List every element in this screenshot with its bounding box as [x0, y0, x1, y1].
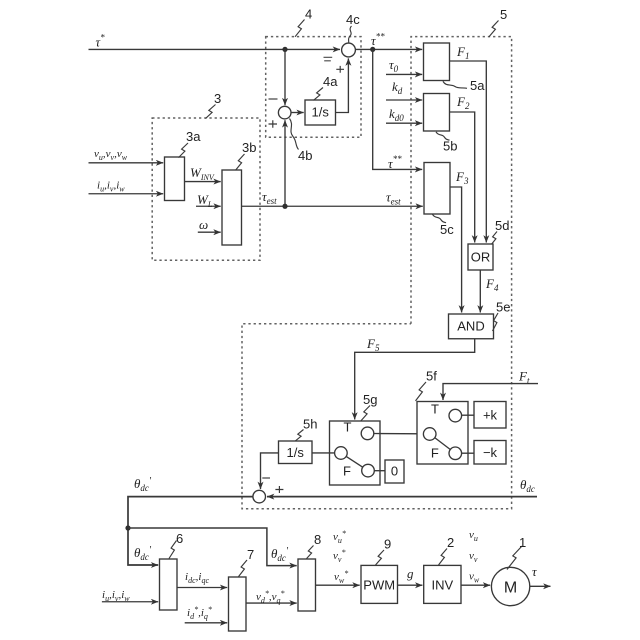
- svg-text:5b: 5b: [443, 139, 457, 154]
- svg-text:g: g: [407, 566, 414, 581]
- svg-text:OR: OR: [471, 250, 491, 265]
- svg-text:7: 7: [247, 547, 254, 562]
- leader 5d: [492, 232, 498, 245]
- wire F2 output to OR: [450, 112, 475, 243]
- leader 5f: [416, 382, 427, 401]
- svg-text:−k: −k: [483, 445, 498, 460]
- svg-text:T: T: [431, 402, 439, 417]
- block 3b: [222, 170, 242, 245]
- wire k_d0 into F2: [386, 122, 422, 124]
- squiggle leaders: [169, 20, 522, 577]
- svg-text:5e: 5e: [496, 300, 510, 315]
- wire tau* main line: [89, 48, 341, 50]
- svg-text:τest: τest: [262, 189, 277, 206]
- svg-text:idc,iqc: idc,iqc: [185, 571, 209, 585]
- leader 4: [295, 20, 305, 37]
- svg-text:vd*,vq*: vd*,vq*: [256, 589, 285, 605]
- contact T of 5g: [361, 427, 374, 440]
- wire tau* down to 4b: [284, 49, 286, 105]
- wire theta_dc' output left and down to block 6: [128, 497, 253, 565]
- leader 9: [376, 550, 385, 565]
- svg-text:τ**: τ**: [371, 32, 385, 49]
- gain box -k: [474, 441, 506, 465]
- integrator box 4a (1/s): [305, 100, 336, 125]
- minus sign at summing junction: [262, 477, 270, 479]
- switch box 5f: [417, 402, 468, 465]
- leader 1: [507, 546, 522, 570]
- svg-text:1/s: 1/s: [287, 445, 305, 460]
- svg-text:τ*: τ*: [96, 33, 106, 50]
- svg-text:1/s: 1/s: [312, 105, 330, 120]
- leader 8: [307, 546, 314, 559]
- svg-text:INV: INV: [431, 578, 453, 593]
- comparator box 5b (F2): [424, 94, 450, 132]
- switch box 5g: [330, 421, 381, 485]
- summing junction theta: [253, 490, 266, 503]
- svg-text:4a: 4a: [323, 74, 338, 89]
- svg-text:θdc: θdc: [520, 477, 535, 494]
- leader 5: [489, 21, 499, 37]
- wire k_d into F2: [386, 99, 422, 101]
- svg-text:iu,iv,iw: iu,iv,iw: [97, 180, 125, 194]
- integrator box 5h (1/s): [279, 441, 313, 464]
- wire W_L into 3b: [196, 205, 221, 207]
- minus sign at 4b: [269, 98, 278, 100]
- leader 4b: [290, 119, 299, 150]
- leader 5g: [361, 406, 370, 421]
- wire F3 output to AND: [450, 187, 462, 313]
- wire i_dc block 6 to 7: [177, 587, 227, 589]
- contact F of 5g: [362, 464, 375, 477]
- wire 5g T to 5f common: [374, 433, 424, 435]
- leader 4c: [349, 26, 352, 43]
- svg-text:5d: 5d: [495, 218, 509, 233]
- contact F of 5f: [449, 447, 462, 460]
- svg-text:vv: vv: [469, 550, 478, 564]
- wire W_INV 3a to 3b: [185, 181, 221, 183]
- switch arm 5f: [435, 438, 451, 450]
- svg-text:4b: 4b: [298, 148, 312, 163]
- leader 6: [169, 541, 177, 559]
- plus sign at 4b: [269, 120, 278, 128]
- svg-text:F3: F3: [455, 169, 469, 186]
- svg-text:kd0: kd0: [389, 106, 404, 123]
- wire g PWM to INV: [398, 584, 423, 586]
- wire F1 output to OR: [450, 61, 487, 243]
- block 3a: [165, 157, 185, 201]
- wire F5 AND to switch 5g: [355, 339, 475, 420]
- leader 5h: [296, 430, 304, 441]
- svg-text:vu: vu: [469, 529, 478, 543]
- svg-text:0: 0: [391, 464, 398, 479]
- svg-text:θdc': θdc': [134, 545, 152, 562]
- svg-text:F: F: [343, 464, 351, 479]
- INV box 2: [424, 565, 461, 603]
- plus sign at 4c: [336, 66, 344, 73]
- wire INV to motor: [461, 584, 490, 586]
- svg-text:2: 2: [447, 535, 454, 550]
- svg-text:5h: 5h: [303, 417, 317, 432]
- wire F_t into switch 5f: [443, 384, 538, 400]
- svg-text:ω: ω: [199, 217, 208, 232]
- leader 5c: [433, 214, 447, 223]
- wire tau0 into F1: [386, 73, 422, 75]
- contact common of 5f: [423, 428, 436, 441]
- wire theta_dc' branch to block 8: [128, 528, 297, 566]
- svg-text:vu*: vu*: [333, 529, 346, 545]
- wire i_u input to 3a: [89, 193, 164, 195]
- svg-text:vw*: vw*: [334, 569, 348, 585]
- svg-text:M: M: [504, 580, 517, 597]
- leader 5b: [436, 132, 450, 141]
- block 7: [229, 577, 247, 631]
- svg-text:4c: 4c: [346, 12, 360, 27]
- block 6: [160, 559, 178, 610]
- wire i_d* into block 7: [185, 622, 228, 624]
- leader 3: [206, 105, 216, 119]
- svg-text:5a: 5a: [470, 78, 485, 93]
- wire i_u input to block 6: [102, 601, 158, 603]
- switch arm 5g: [346, 456, 363, 467]
- svg-text:6: 6: [176, 531, 183, 546]
- dashed box 3: [152, 118, 260, 260]
- svg-text:iu,iv,iw: iu,iv,iw: [102, 589, 130, 603]
- wire 4b to integrator 4a: [291, 112, 304, 114]
- leader 5e: [493, 313, 499, 331]
- wire tau_est from 3b to F3: [242, 205, 423, 207]
- node junction tau**: [370, 47, 375, 52]
- wire 4a output up to 4c: [336, 58, 349, 112]
- svg-text:θdc': θdc': [134, 476, 152, 493]
- svg-text:τest: τest: [386, 190, 401, 207]
- svg-text:9: 9: [384, 537, 391, 552]
- contact common of 5g: [335, 447, 348, 460]
- svg-text:5c: 5c: [440, 222, 454, 237]
- svg-text:3b: 3b: [242, 140, 256, 155]
- node junction tau_est: [282, 204, 287, 209]
- constant box 0: [385, 460, 404, 483]
- wire theta_dc from right into junction: [267, 496, 537, 498]
- svg-text:AND: AND: [457, 319, 484, 334]
- svg-text:5: 5: [500, 7, 507, 22]
- wire 5f F to -k: [462, 452, 474, 454]
- svg-text:τ0: τ0: [389, 57, 399, 74]
- leader 3a: [179, 143, 189, 158]
- dashed box 4: [266, 37, 361, 138]
- wire omega into 3b: [198, 231, 221, 233]
- wire F4 OR to AND: [479, 270, 481, 313]
- plus sign at theta junction: [275, 486, 283, 493]
- svg-text:+k: +k: [483, 408, 498, 423]
- svg-text:5f: 5f: [426, 369, 437, 384]
- gain box +k: [474, 402, 506, 429]
- svg-text:vu,vv,vw: vu,vv,vw: [94, 148, 128, 162]
- svg-text:τ**: τ**: [388, 154, 402, 171]
- svg-text:id*,iq*: id*,iq*: [187, 605, 212, 621]
- svg-text:8: 8: [314, 532, 321, 547]
- svg-text:F5: F5: [366, 336, 380, 353]
- svg-text:T: T: [344, 420, 352, 435]
- svg-text:Ft: Ft: [518, 369, 530, 386]
- motor M circle 1: [491, 567, 529, 605]
- comparator box 5a (F1): [424, 43, 450, 81]
- node junction theta_dc': [125, 525, 130, 530]
- svg-text:vw: vw: [469, 571, 480, 585]
- svg-text:WL: WL: [197, 192, 213, 209]
- wire 5h output to summing junction: [261, 453, 279, 489]
- PWM box 9: [361, 565, 398, 603]
- minus sign at 4c: [324, 57, 333, 61]
- comparator box 5c (F3): [424, 163, 450, 215]
- wire 4c to F1: [355, 48, 422, 50]
- leader 3b: [236, 154, 245, 170]
- svg-text:vv*: vv*: [333, 548, 345, 564]
- svg-text:PWM: PWM: [363, 578, 395, 593]
- wire 5g common to integrator 5h: [312, 452, 335, 454]
- svg-text:WINV: WINV: [190, 165, 215, 182]
- contact T of 5f: [449, 409, 462, 422]
- svg-text:F: F: [431, 446, 439, 461]
- OR gate box 5d: [468, 244, 493, 270]
- svg-text:τ: τ: [532, 564, 538, 579]
- summing junction 4c: [342, 43, 356, 57]
- svg-text:3a: 3a: [186, 129, 201, 144]
- svg-text:F1: F1: [456, 44, 469, 61]
- wire v_u input to 3a: [89, 162, 164, 164]
- AND gate box 5e: [449, 314, 494, 339]
- svg-text:1: 1: [519, 535, 526, 550]
- svg-text:4: 4: [305, 7, 312, 22]
- node junction on tau* line: [282, 47, 287, 52]
- wire v_d* block 7 to 8: [246, 602, 297, 604]
- svg-text:F4: F4: [485, 276, 499, 293]
- dashed box 5: [242, 37, 512, 509]
- box texts: [287, 105, 518, 597]
- wire torque output from motor: [530, 585, 551, 587]
- wire block 8 to PWM: [316, 584, 360, 586]
- svg-text:kd: kd: [392, 79, 403, 96]
- wire tau_est up into 4b: [284, 120, 286, 206]
- leader 2: [439, 549, 448, 566]
- wire 5g F to 0 box: [374, 470, 385, 472]
- block 8: [298, 559, 316, 611]
- leader 4a: [314, 88, 324, 101]
- svg-text:5g: 5g: [363, 392, 377, 407]
- summing junction 4b: [278, 106, 291, 119]
- wire 5f T to +k: [462, 414, 474, 416]
- svg-text:F2: F2: [456, 94, 470, 111]
- svg-text:θdc': θdc': [271, 546, 289, 563]
- wire tau** down to F3: [373, 49, 423, 169]
- leader 7: [239, 560, 248, 577]
- leader 5a: [443, 81, 467, 88]
- svg-text:3: 3: [214, 91, 221, 106]
